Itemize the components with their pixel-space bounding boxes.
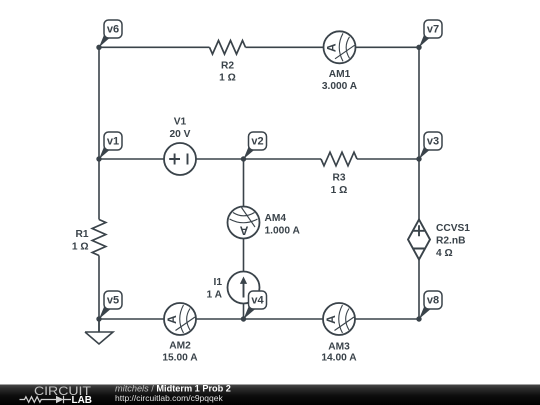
svg-text:I1: I1	[214, 277, 223, 288]
svg-text:AM3: AM3	[328, 342, 350, 353]
svg-text:15.00 A: 15.00 A	[162, 353, 198, 364]
svg-text:1 Ω: 1 Ω	[72, 241, 89, 252]
svg-text:R2.nB: R2.nB	[436, 236, 465, 247]
svg-text:AM1: AM1	[329, 69, 351, 80]
svg-text:v7: v7	[427, 24, 439, 36]
svg-text:v6: v6	[107, 24, 119, 36]
svg-text:14.00 A: 14.00 A	[321, 353, 357, 364]
svg-text:20 V: 20 V	[170, 129, 191, 140]
svg-text:v3: v3	[427, 136, 439, 148]
svg-text:1 Ω: 1 Ω	[331, 185, 348, 196]
svg-text:v5: v5	[107, 295, 119, 307]
svg-text:http://circuitlab.com/c9pqqek: http://circuitlab.com/c9pqqek	[115, 393, 223, 403]
svg-text:R2: R2	[221, 61, 234, 72]
svg-text:LAB: LAB	[72, 395, 93, 405]
svg-text:1 Ω: 1 Ω	[219, 73, 236, 84]
svg-text:AM2: AM2	[169, 341, 191, 352]
svg-text:V1: V1	[174, 117, 187, 128]
svg-text:v8: v8	[427, 295, 439, 307]
svg-text:v1: v1	[107, 136, 119, 148]
svg-text:1 A: 1 A	[207, 289, 223, 300]
svg-text:4 Ω: 4 Ω	[436, 248, 453, 259]
svg-text:v2: v2	[251, 136, 263, 148]
svg-text:3.000 A: 3.000 A	[322, 81, 358, 92]
svg-text:R1: R1	[75, 229, 88, 240]
svg-text:R3: R3	[332, 173, 345, 184]
svg-text:CCVS1: CCVS1	[436, 223, 470, 234]
svg-text:1.000 A: 1.000 A	[265, 225, 301, 236]
svg-text:v4: v4	[251, 295, 264, 307]
svg-text:AM4: AM4	[265, 213, 287, 224]
svg-text:mitchels / Midterm 1 Prob 2: mitchels / Midterm 1 Prob 2	[115, 383, 231, 393]
